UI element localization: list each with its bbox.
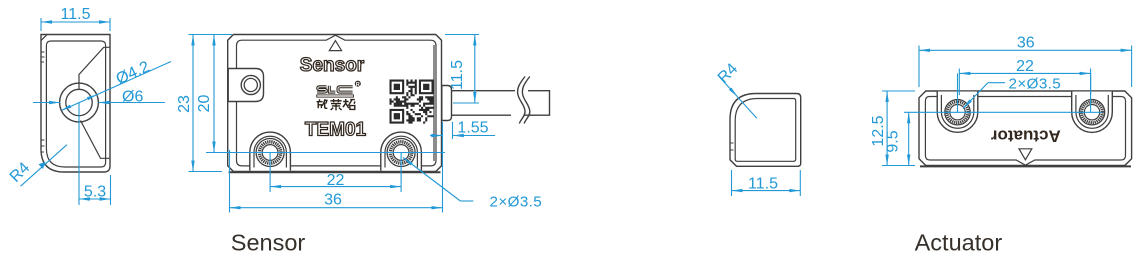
svg-text:11.5: 11.5 <box>449 60 466 90</box>
svg-text:11.5: 11.5 <box>61 6 91 23</box>
svg-text:Ø6: Ø6 <box>122 89 143 106</box>
svg-text:36: 36 <box>1017 35 1035 52</box>
svg-text:2×Ø3.5: 2×Ø3.5 <box>490 194 543 211</box>
svg-text:1.55: 1.55 <box>457 119 488 136</box>
svg-text:R: R <box>356 82 360 88</box>
svg-text:Actuator: Actuator <box>990 127 1060 146</box>
svg-text:Sensor: Sensor <box>300 55 365 76</box>
svg-text:Sensor: Sensor <box>231 230 306 256</box>
svg-text:TEM01: TEM01 <box>305 119 367 140</box>
svg-text:20: 20 <box>196 95 213 113</box>
svg-text:5.3: 5.3 <box>84 184 106 201</box>
svg-text:11.5: 11.5 <box>748 175 778 192</box>
svg-text:Actuator: Actuator <box>915 230 1003 256</box>
svg-text:9.5: 9.5 <box>884 130 901 152</box>
svg-text:22: 22 <box>327 172 345 189</box>
svg-text:36: 36 <box>324 192 342 209</box>
svg-text:2×Ø3.5: 2×Ø3.5 <box>1009 76 1062 93</box>
svg-text:22: 22 <box>1016 58 1034 75</box>
svg-text:23: 23 <box>176 95 193 113</box>
